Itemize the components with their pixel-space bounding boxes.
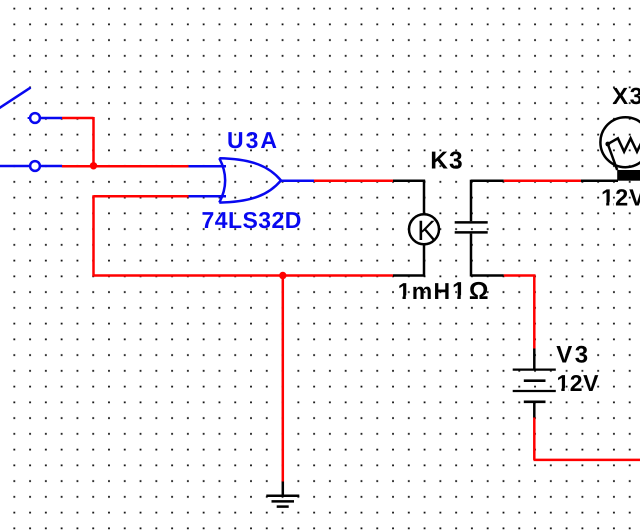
lamp base (617, 170, 640, 181)
OR gate U3A body (219, 158, 281, 202)
wire black to relay coil top (393, 179, 425, 182)
junction node bottom (279, 272, 286, 279)
wire gate output blue (281, 179, 315, 182)
switch S lever (0, 88, 31, 109)
wire black to lamp base (581, 179, 618, 182)
wire gate input2 red horizontal (94, 195, 189, 198)
switch pole tick (28, 117, 31, 119)
wire red contact top to lamp (504, 179, 581, 182)
wire blue stub from bottom circle (40, 165, 62, 168)
junction node (90, 162, 97, 169)
lamp filament dot (605, 142, 610, 147)
wire gate input2 blue (189, 195, 227, 198)
wire red bottom row (94, 274, 394, 277)
wire blue stub from top circle (40, 117, 62, 120)
svg-text:12V: 12V (557, 370, 600, 396)
wire blue left edge to bottom circle (0, 165, 30, 168)
lamp filament zigzag (608, 138, 640, 151)
relay contact plate bottom (455, 231, 488, 234)
wire red top circle to corner (62, 117, 94, 120)
wire red gate output (314, 179, 393, 182)
wire black contact top (471, 179, 504, 182)
wire red bottom row to gate (62, 165, 189, 168)
wire red vertical corner down to junction (92, 117, 95, 166)
wire red contact bottom to battery (504, 274, 536, 277)
relay K3 contact bottom lead (470, 234, 473, 277)
svg-text:1mH: 1mH (398, 278, 451, 304)
svg-text:V3: V3 (556, 342, 590, 369)
relay K3 coil bottom lead (423, 244, 426, 276)
battery V3 bottom lead (533, 403, 536, 418)
wire black contact bottom (471, 274, 504, 277)
wire red feedback vertical (92, 195, 95, 276)
relay K3 contact top lead (470, 180, 473, 222)
battery V3 top lead (533, 349, 536, 370)
wire red down to battery (533, 275, 536, 349)
wire red battery bottom (533, 418, 536, 460)
ground lead (282, 482, 285, 496)
relay K3 coil top lead (423, 180, 426, 215)
svg-text:12V: 12V (601, 185, 640, 211)
ground bars (266, 496, 299, 507)
battery plate long 2 (513, 390, 556, 392)
switch terminal circle top (30, 113, 40, 123)
relay K3 coil circle (409, 214, 439, 244)
wire black coil bottom (393, 274, 425, 277)
white masks to remove Liberation footed-1 serifs (399, 202, 613, 392)
wire gate input1 blue (189, 165, 227, 168)
svg-text:1Ω: 1Ω (452, 278, 492, 305)
battery plate short 2 (524, 400, 546, 403)
svg-text:74LS32D: 74LS32D (202, 207, 302, 233)
battery plate long 1 (513, 369, 556, 371)
svg-text:K3: K3 (430, 148, 463, 175)
battery plate short 1 (524, 379, 546, 382)
wire red to ground (282, 276, 285, 482)
lamp support line (608, 144, 617, 170)
svg-text:K: K (417, 215, 436, 246)
svg-text:X3: X3 (612, 83, 640, 109)
relay contact plate top (455, 221, 488, 224)
lamp X3 bulb circle (600, 117, 640, 167)
svg-text:U3A: U3A (227, 127, 279, 153)
wire red bottom to right edge (534, 459, 640, 462)
switch terminal circle bottom (30, 161, 40, 171)
